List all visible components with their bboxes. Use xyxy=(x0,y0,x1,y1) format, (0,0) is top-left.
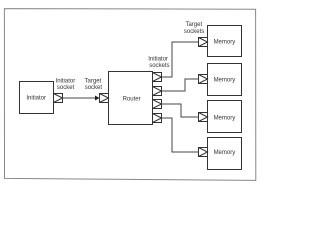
target socket on Memory 2 xyxy=(199,75,208,84)
router block xyxy=(109,72,153,125)
wire router to memory 3 xyxy=(162,104,199,117)
svg-text:Memory: Memory xyxy=(214,78,236,84)
target socket on Memory 4 xyxy=(199,148,208,157)
wire initiator to router xyxy=(63,97,96,99)
wire router to memory 4 xyxy=(162,118,199,152)
initiator socket 3 on Router xyxy=(153,100,162,109)
wire router to memory 2 xyxy=(162,79,199,91)
arrowhead initiator to router xyxy=(95,96,100,101)
memory block 2 xyxy=(208,64,242,96)
svg-text:Router: Router xyxy=(123,96,141,102)
svg-text:Initiator: Initiator xyxy=(56,78,76,84)
svg-text:Initiator: Initiator xyxy=(26,96,46,102)
initiator socket on Initiator xyxy=(54,94,63,103)
svg-text:Target: Target xyxy=(185,22,202,28)
initiator socket 2 on Router xyxy=(153,87,162,96)
svg-text:Memory: Memory xyxy=(214,40,236,46)
target socket on Router xyxy=(100,94,109,103)
wire router to memory 1 xyxy=(162,42,199,77)
initiator socket 1 on Router xyxy=(153,73,162,82)
initiator socket 4 on Router xyxy=(153,114,162,123)
svg-text:sockets: sockets xyxy=(184,29,204,35)
memory block 3 xyxy=(208,101,242,133)
target socket on Memory 3 xyxy=(199,113,208,122)
svg-text:sockets: sockets xyxy=(149,63,169,69)
svg-text:socket: socket xyxy=(57,85,75,91)
initiator block xyxy=(20,82,54,114)
svg-text:Initiator: Initiator xyxy=(148,56,168,62)
svg-text:Memory: Memory xyxy=(214,116,236,122)
svg-text:Memory: Memory xyxy=(214,150,236,156)
border frame xyxy=(4,9,255,181)
memory block 1 xyxy=(208,26,242,57)
svg-text:Target: Target xyxy=(85,78,102,84)
memory block 4 xyxy=(208,138,242,170)
svg-text:socket: socket xyxy=(85,85,103,91)
target socket on Memory 1 xyxy=(199,38,208,47)
